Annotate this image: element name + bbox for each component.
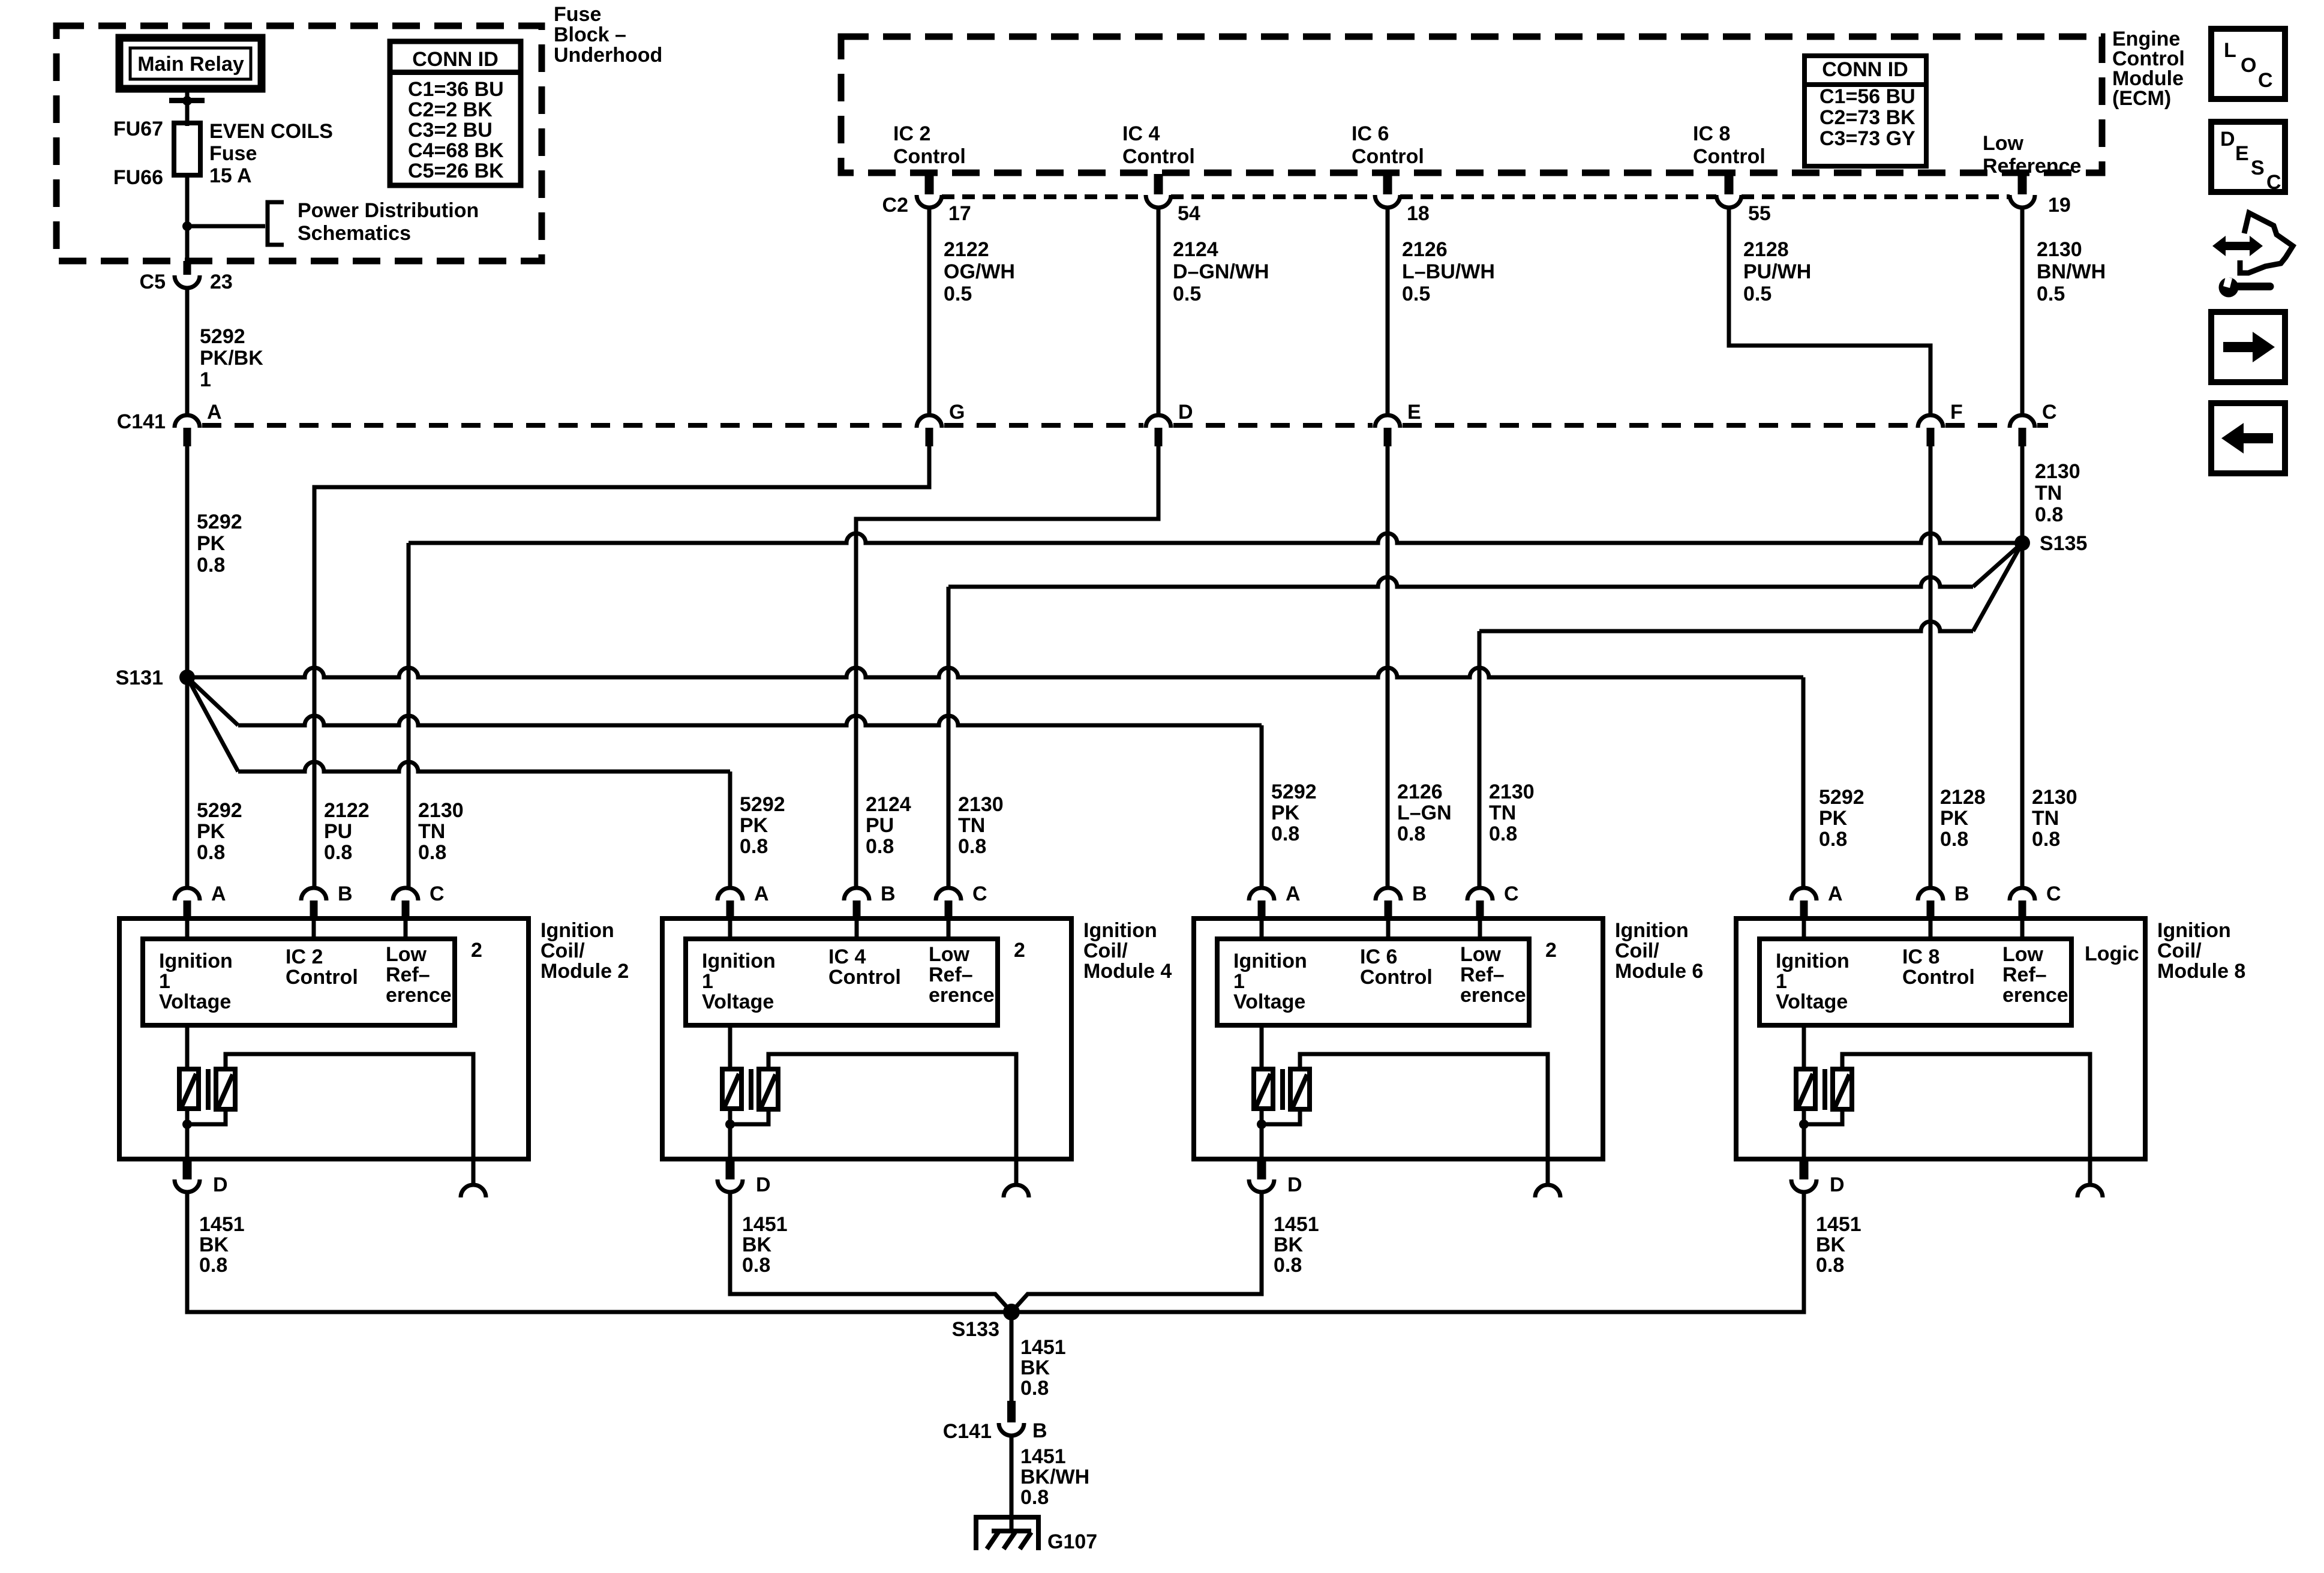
svg-text:C: C [2046, 882, 2061, 905]
svg-text:D: D [1287, 1173, 1302, 1196]
svg-text:BK: BK [199, 1233, 229, 1256]
svg-text:CONN ID: CONN ID [1822, 58, 1908, 81]
ignition coil/module 6 secondary output connector [1546, 1159, 1550, 1183]
svg-text:F: F [1950, 401, 1963, 424]
wire IC4 control D to module 4 pin B [856, 446, 1158, 888]
svg-text:BK: BK [742, 1233, 772, 1256]
svg-text:C: C [2266, 171, 2281, 194]
svg-text:PK/BK: PK/BK [200, 347, 263, 370]
inner pin stub C module 4 [947, 918, 951, 939]
wire IC8 control F to module 8 pin B [1929, 446, 1933, 888]
svg-text:5292: 5292 [197, 511, 242, 533]
wire to power distribution bracket [187, 224, 265, 229]
svg-text:Ignition: Ignition [2157, 919, 2231, 942]
svg-text:C1=36 BU: C1=36 BU [408, 78, 504, 101]
svg-text:19: 19 [2048, 194, 2071, 217]
ignition coil/module 8 inner logic box [1759, 939, 2071, 1025]
svg-text:Ignition: Ignition [1776, 950, 1849, 972]
svg-text:2128: 2128 [1743, 238, 1789, 261]
svg-text:2130: 2130 [1489, 781, 1535, 803]
wire 1451 BK module 8 pin D to S133 [1019, 1193, 1804, 1312]
svg-text:IC 8: IC 8 [1902, 945, 1939, 968]
svg-text:B: B [338, 882, 353, 905]
svg-text:2130: 2130 [2037, 238, 2082, 261]
wire coil secondary top module 6 [1300, 1054, 1548, 1159]
svg-text:PK: PK [197, 532, 226, 555]
svg-text:BK/WH: BK/WH [1020, 1466, 1089, 1488]
ignition coil/module 4 secondary output connector [1014, 1159, 1019, 1183]
ignition coil/module 6 outer box [1194, 918, 1603, 1159]
wire 2130 BN/WH 0.5 [2020, 208, 2025, 416]
svg-text:Ref–: Ref– [386, 963, 430, 986]
wire 5292 PK/BK [185, 288, 190, 416]
svg-text:B: B [1954, 882, 1969, 905]
svg-text:1451: 1451 [1020, 1336, 1066, 1359]
ignition coil/module 4 connector pin A [717, 888, 743, 900]
svg-text:Coil/: Coil/ [541, 939, 585, 962]
connector C141 pin A [175, 415, 200, 428]
junction dot coil common module 6 [1257, 1119, 1266, 1129]
svg-text:0.8: 0.8 [866, 835, 894, 858]
svg-text:Control: Control [828, 966, 901, 989]
svg-text:Reference: Reference [1983, 155, 2081, 178]
junction dot coil common module 4 [725, 1119, 735, 1129]
svg-text:2126: 2126 [1397, 781, 1443, 803]
svg-text:BK: BK [1274, 1233, 1304, 1256]
svg-text:0.8: 0.8 [1819, 828, 1847, 851]
svg-text:C2=73 BK: C2=73 BK [1819, 106, 1915, 129]
wire coil secondary bottom link module 4 [730, 1109, 768, 1124]
svg-text:IC 2: IC 2 [286, 945, 323, 968]
svg-text:5292: 5292 [197, 799, 242, 822]
svg-text:Block –: Block – [554, 23, 626, 46]
wire 1451 BK module 4 pin D to S133 [730, 1193, 1011, 1312]
svg-text:0.8: 0.8 [742, 1254, 770, 1277]
svg-text:1: 1 [702, 970, 713, 993]
svg-text:C3=2 BU: C3=2 BU [408, 119, 493, 142]
connector C5 pin 23 [184, 261, 191, 275]
ignition coil/module 2 connector pin B [301, 888, 326, 900]
ignition coil/module 8 connector pin C [2010, 888, 2035, 900]
wire coil secondary top module 8 [1842, 1054, 2090, 1159]
inner pin stub B module 2 [312, 918, 316, 939]
connector C141 pin E [1375, 415, 1400, 428]
svg-text:IC 2: IC 2 [893, 122, 930, 145]
ignition coil/module 4 outer box [662, 918, 1071, 1159]
svg-text:2: 2 [1545, 939, 1557, 962]
svg-text:Schematics: Schematics [298, 222, 411, 245]
coil core bar module 6 [1280, 1069, 1285, 1110]
svg-text:15 A: 15 A [209, 164, 252, 187]
svg-text:0.5: 0.5 [1173, 283, 1201, 305]
svg-text:Module 4: Module 4 [1083, 960, 1172, 983]
svg-text:TN: TN [2035, 482, 2062, 505]
wire relay output [185, 89, 190, 126]
svg-text:TN: TN [1489, 801, 1516, 824]
svg-text:S: S [2251, 157, 2265, 179]
wire 5292 PK to module 2 pin A [185, 677, 190, 888]
ignition coil/module 2 inner logic box [143, 939, 455, 1025]
inner pin stub C module 2 [404, 918, 408, 939]
svg-text:B: B [881, 882, 896, 905]
svg-text:OG/WH: OG/WH [944, 260, 1015, 283]
ignition coil/module 8 connector pin A [1791, 888, 1816, 900]
relay: Main Relay [119, 38, 262, 89]
svg-text:0.8: 0.8 [2032, 828, 2060, 851]
svg-text:2: 2 [1014, 939, 1025, 962]
svg-text:C141: C141 [943, 1420, 992, 1443]
svg-text:Ignition: Ignition [1083, 919, 1157, 942]
icon forward arrow box [2211, 312, 2285, 382]
engine control module dashed enclosure [841, 37, 2102, 173]
wire 5292 PK branch to module 8 pin A [187, 668, 1803, 677]
ignition coil/module 8 outer box [1736, 918, 2145, 1159]
icon DESC box [2211, 122, 2285, 192]
svg-text:0.8: 0.8 [1816, 1254, 1844, 1277]
svg-text:Coil/: Coil/ [1615, 939, 1659, 962]
svg-text:A: A [207, 401, 222, 424]
svg-text:S135: S135 [2040, 532, 2087, 555]
svg-text:0.8: 0.8 [1271, 822, 1299, 845]
inner pin stub A module 8 [1802, 918, 1806, 939]
svg-text:Control: Control [1352, 145, 1424, 168]
svg-text:C141: C141 [117, 410, 166, 433]
svg-text:D: D [1178, 401, 1193, 424]
ignition coil/module 6 connector pin D [1257, 1159, 1266, 1179]
svg-text:C: C [2042, 401, 2057, 424]
svg-text:Low: Low [1983, 132, 2024, 155]
inner pin stub A module 4 [728, 918, 732, 939]
svg-text:Control: Control [286, 966, 358, 989]
svg-text:Voltage: Voltage [1776, 990, 1848, 1013]
svg-text:0.8: 0.8 [1020, 1486, 1049, 1509]
svg-text:Ignition: Ignition [1615, 919, 1689, 942]
svg-text:2128: 2128 [1940, 786, 1986, 809]
wire fuse to C5 [185, 175, 190, 264]
svg-text:PK: PK [740, 814, 768, 837]
svg-text:Control: Control [1693, 145, 1765, 168]
ignition coil/module 8 secondary output connector [2088, 1159, 2092, 1183]
inner pin stub C module 6 [1478, 918, 1482, 939]
coil core bar module 8 [1822, 1069, 1827, 1110]
connector C141 pin C [2010, 415, 2035, 428]
svg-text:1451: 1451 [1816, 1213, 1861, 1236]
svg-text:Voltage: Voltage [702, 990, 774, 1013]
svg-text:Module 2: Module 2 [541, 960, 629, 983]
icon LOC box [2211, 29, 2285, 99]
svg-text:IC 4: IC 4 [1122, 122, 1160, 145]
wire ignition voltage to coil module 2 [185, 1025, 190, 1069]
wire coil secondary bottom link module 2 [187, 1109, 226, 1124]
svg-text:Voltage: Voltage [159, 990, 231, 1013]
svg-text:1: 1 [159, 970, 170, 993]
svg-text:2: 2 [471, 939, 482, 962]
wire coil secondary bottom link module 8 [1804, 1109, 1842, 1124]
wire coil primary bottom module 4 [728, 1109, 732, 1159]
svg-text:1451: 1451 [742, 1213, 788, 1236]
wire coil primary bottom module 6 [1260, 1109, 1264, 1159]
svg-text:PU: PU [324, 820, 352, 843]
svg-text:E: E [1407, 401, 1421, 424]
connector C141 pin G [917, 415, 942, 428]
svg-text:A: A [211, 882, 226, 905]
junction dot relay output [182, 96, 192, 106]
svg-text:Ref–: Ref– [929, 963, 973, 986]
connector line C141 (dashed) [202, 423, 914, 428]
svg-text:BK: BK [1020, 1356, 1050, 1379]
junction dot coil common module 2 [182, 1119, 192, 1129]
ignition coil/module 8 connector pin B [1918, 888, 1943, 900]
svg-text:(ECM): (ECM) [2112, 87, 2171, 110]
coil secondary winding module 4 [759, 1069, 778, 1109]
connector C2 pin 17 [925, 174, 934, 194]
svg-text:C2: C2 [882, 194, 908, 217]
svg-text:CONN ID: CONN ID [412, 48, 499, 71]
svg-text:C2=2 BK: C2=2 BK [408, 98, 493, 121]
wire IC6 control E to module 6 pin B [1386, 446, 1390, 888]
svg-text:TN: TN [2032, 807, 2059, 830]
svg-text:B: B [1032, 1419, 1047, 1442]
svg-text:C: C [430, 882, 445, 905]
inner pin stub C module 8 [2020, 918, 2025, 939]
wire 2122 OG/WH 0.5 [927, 208, 932, 416]
junction dot coil common module 8 [1799, 1119, 1809, 1129]
svg-text:erence: erence [386, 984, 452, 1007]
svg-text:FU67: FU67 [113, 118, 163, 140]
svg-text:D: D [756, 1173, 771, 1196]
splice S133 [1003, 1304, 1020, 1320]
wire coil secondary top module 2 [226, 1054, 473, 1159]
svg-text:O: O [2241, 54, 2256, 77]
wire coil secondary bottom link module 6 [1262, 1109, 1300, 1124]
wire 1451 BK S133 to C141 B [1010, 1312, 1014, 1401]
svg-text:L: L [2224, 39, 2236, 62]
svg-text:TN: TN [958, 814, 985, 837]
connector C2 pin 18 [1383, 174, 1392, 194]
ignition coil/module 6 inner logic box [1217, 939, 1529, 1025]
svg-text:5292: 5292 [1271, 781, 1317, 803]
wire 5292 PK 0.8 (C141 A to S131) [185, 446, 190, 677]
wire IC2 control G to module 2 pin B [314, 446, 929, 888]
svg-text:S133: S133 [952, 1318, 999, 1341]
bus tick below relay [169, 98, 205, 103]
svg-text:Ignition: Ignition [1233, 950, 1307, 972]
svg-text:5292: 5292 [1819, 786, 1864, 809]
wire 5292 PK branch to module 4 pin A [187, 677, 238, 772]
svg-text:2130: 2130 [418, 799, 464, 822]
svg-text:0.5: 0.5 [944, 283, 972, 305]
svg-text:0.8: 0.8 [1489, 822, 1517, 845]
coil primary winding module 6 [1254, 1069, 1273, 1109]
svg-text:Low: Low [2002, 943, 2044, 966]
svg-text:Control: Control [1902, 966, 1975, 989]
coil secondary winding module 6 [1290, 1069, 1310, 1109]
svg-text:55: 55 [1748, 202, 1771, 225]
wire coil secondary top module 4 [768, 1054, 1016, 1159]
ignition coil/module 2 connector pin C [393, 888, 418, 900]
svg-text:Ref–: Ref– [1460, 963, 1505, 986]
svg-text:PK: PK [1940, 807, 1969, 830]
svg-text:A: A [1828, 882, 1843, 905]
inner pin stub B module 4 [855, 918, 859, 939]
junction dot power distribution tap [182, 221, 192, 231]
svg-text:L–BU/WH: L–BU/WH [1402, 260, 1495, 283]
svg-text:0.8: 0.8 [418, 841, 446, 864]
svg-text:C: C [972, 882, 987, 905]
svg-text:PK: PK [1819, 807, 1848, 830]
svg-text:IC 6: IC 6 [1352, 122, 1389, 145]
icon vehicle data with wrench [2212, 236, 2263, 256]
svg-text:G: G [949, 401, 965, 424]
svg-text:TN: TN [418, 820, 445, 843]
bracket power distribution reference [268, 202, 284, 245]
svg-text:IC 6: IC 6 [1360, 945, 1397, 968]
svg-text:PU/WH: PU/WH [1743, 260, 1811, 283]
inner pin stub B module 8 [1929, 918, 1933, 939]
coil secondary winding module 8 [1833, 1069, 1852, 1109]
svg-text:2124: 2124 [1173, 238, 1218, 261]
svg-text:0.8: 0.8 [1020, 1377, 1049, 1400]
svg-text:1451: 1451 [1020, 1445, 1066, 1468]
ignition coil/module 6 connector pin B [1376, 888, 1401, 900]
svg-text:Low: Low [929, 943, 970, 966]
svg-text:Control: Control [1360, 966, 1433, 989]
wire ignition voltage to coil module 6 [1260, 1025, 1264, 1069]
connector line C2 (dashed) [942, 194, 1146, 199]
ignition coil/module 4 connector pin B [844, 888, 869, 900]
ignition coil/module 2 outer box [119, 918, 529, 1159]
svg-text:Fuse: Fuse [209, 142, 257, 165]
wire 2126 L-BU/WH 0.5 [1386, 208, 1390, 416]
svg-text:erence: erence [2002, 984, 2068, 1007]
svg-text:Low: Low [386, 943, 427, 966]
svg-text:Logic: Logic [2085, 942, 2139, 965]
svg-text:C: C [2258, 69, 2273, 92]
inner pin stub B module 6 [1386, 918, 1391, 939]
svg-text:5292: 5292 [200, 325, 245, 348]
svg-text:5292: 5292 [740, 793, 785, 816]
svg-text:Underhood: Underhood [554, 44, 662, 67]
icon back arrow box [2211, 403, 2285, 473]
connector table CONN ID (ECM) [1804, 56, 1926, 166]
svg-text:D: D [1830, 1173, 1845, 1196]
svg-text:E: E [2235, 142, 2249, 165]
svg-text:2130: 2130 [2035, 460, 2080, 483]
coil core bar module 2 [206, 1069, 211, 1110]
svg-text:Voltage: Voltage [1233, 990, 1305, 1013]
splice S135 [2014, 535, 2030, 551]
svg-text:2130: 2130 [958, 793, 1004, 816]
svg-text:0.5: 0.5 [1743, 283, 1771, 305]
svg-text:erence: erence [929, 984, 995, 1007]
wire 2128 PU/WH 0.5 [1729, 208, 1930, 416]
svg-text:C5: C5 [140, 271, 166, 293]
coil primary winding module 2 [179, 1069, 199, 1109]
connector C141 pin D [1146, 415, 1171, 428]
wire ignition voltage to coil module 8 [1802, 1025, 1806, 1069]
svg-text:Control: Control [893, 145, 966, 168]
svg-text:Module 8: Module 8 [2157, 960, 2245, 983]
svg-text:1451: 1451 [199, 1213, 245, 1236]
connector C2 pin 55 [1725, 174, 1734, 194]
svg-text:0.8: 0.8 [324, 841, 352, 864]
svg-text:2126: 2126 [1402, 238, 1448, 261]
svg-text:2130: 2130 [2032, 786, 2077, 809]
wire 1451 BK module 6 pin D to S133 [1011, 1193, 1262, 1312]
svg-text:0.8: 0.8 [958, 835, 986, 858]
wire coil primary bottom module 2 [185, 1109, 190, 1159]
connector C2 pin 19 [2018, 174, 2027, 194]
svg-text:D–GN/WH: D–GN/WH [1173, 260, 1269, 283]
svg-text:Ignition: Ignition [159, 950, 233, 972]
svg-text:1: 1 [1233, 970, 1245, 993]
fuse FU66/FU67 EVEN COILS 15A [174, 123, 200, 175]
ground G107 [974, 1515, 1041, 1520]
connector C2 pin 54 [1154, 174, 1163, 194]
svg-text:Module 6: Module 6 [1615, 960, 1703, 983]
ignition coil/module 6 connector pin C [1467, 888, 1493, 900]
wire ignition voltage to coil module 4 [728, 1025, 732, 1069]
svg-text:BN/WH: BN/WH [2037, 260, 2106, 283]
connector C141 pin B [1007, 1401, 1016, 1422]
connector table CONN ID (fuse block) [390, 41, 521, 185]
svg-text:0.8: 0.8 [2035, 503, 2063, 526]
svg-text:18: 18 [1407, 202, 1430, 225]
wire coil primary bottom module 8 [1802, 1109, 1806, 1159]
ignition coil/module 4 connector pin C [936, 888, 961, 900]
svg-text:C5=26 BK: C5=26 BK [408, 160, 504, 182]
svg-text:EVEN COILS: EVEN COILS [209, 120, 333, 143]
wire 5292 PK branch to module 6 pin A [187, 677, 238, 725]
svg-text:Ref–: Ref– [2002, 963, 2047, 986]
svg-text:Power Distribution: Power Distribution [298, 199, 479, 222]
wire 1451 BK module 2 pin D to S133 [187, 1193, 1004, 1312]
coil primary winding module 4 [722, 1069, 741, 1109]
svg-text:Main Relay: Main Relay [137, 53, 244, 76]
svg-text:0.8: 0.8 [197, 841, 225, 864]
svg-text:Fuse: Fuse [554, 3, 601, 26]
svg-text:Control: Control [1122, 145, 1195, 168]
svg-text:2122: 2122 [944, 238, 989, 261]
svg-text:C: C [1504, 882, 1519, 905]
svg-text:S131: S131 [116, 667, 163, 689]
ignition coil/module 2 connector pin D [183, 1159, 192, 1179]
svg-text:A: A [1286, 882, 1301, 905]
wire 2124 D-GN/WH 0.5 [1157, 208, 1161, 416]
svg-text:A: A [754, 882, 769, 905]
svg-text:Coil/: Coil/ [1083, 939, 1128, 962]
svg-text:0.8: 0.8 [740, 835, 768, 858]
svg-text:D: D [213, 1173, 228, 1196]
wire low reference branch to module 2 pin C [409, 533, 2017, 543]
svg-text:PK: PK [197, 820, 226, 843]
inner pin stub A module 2 [185, 918, 190, 939]
svg-text:L–GN: L–GN [1397, 801, 1452, 824]
coil primary winding module 8 [1796, 1069, 1815, 1109]
svg-text:C4=68 BK: C4=68 BK [408, 139, 504, 162]
svg-text:C3=73 GY: C3=73 GY [1819, 127, 1915, 150]
wire 1451 BK/WH to ground [1010, 1436, 1014, 1531]
svg-text:1: 1 [1776, 970, 1787, 993]
svg-text:1451: 1451 [1274, 1213, 1319, 1236]
coil secondary winding module 2 [216, 1069, 235, 1109]
wire low reference branch to module 4 pin C [1973, 543, 2022, 587]
svg-text:0.8: 0.8 [199, 1254, 227, 1277]
fuse block - underhood dashed enclosure [56, 26, 542, 261]
svg-text:0.8: 0.8 [1940, 828, 1968, 851]
ignition coil/module 2 connector pin A [175, 888, 200, 900]
svg-text:0.8: 0.8 [197, 554, 225, 577]
